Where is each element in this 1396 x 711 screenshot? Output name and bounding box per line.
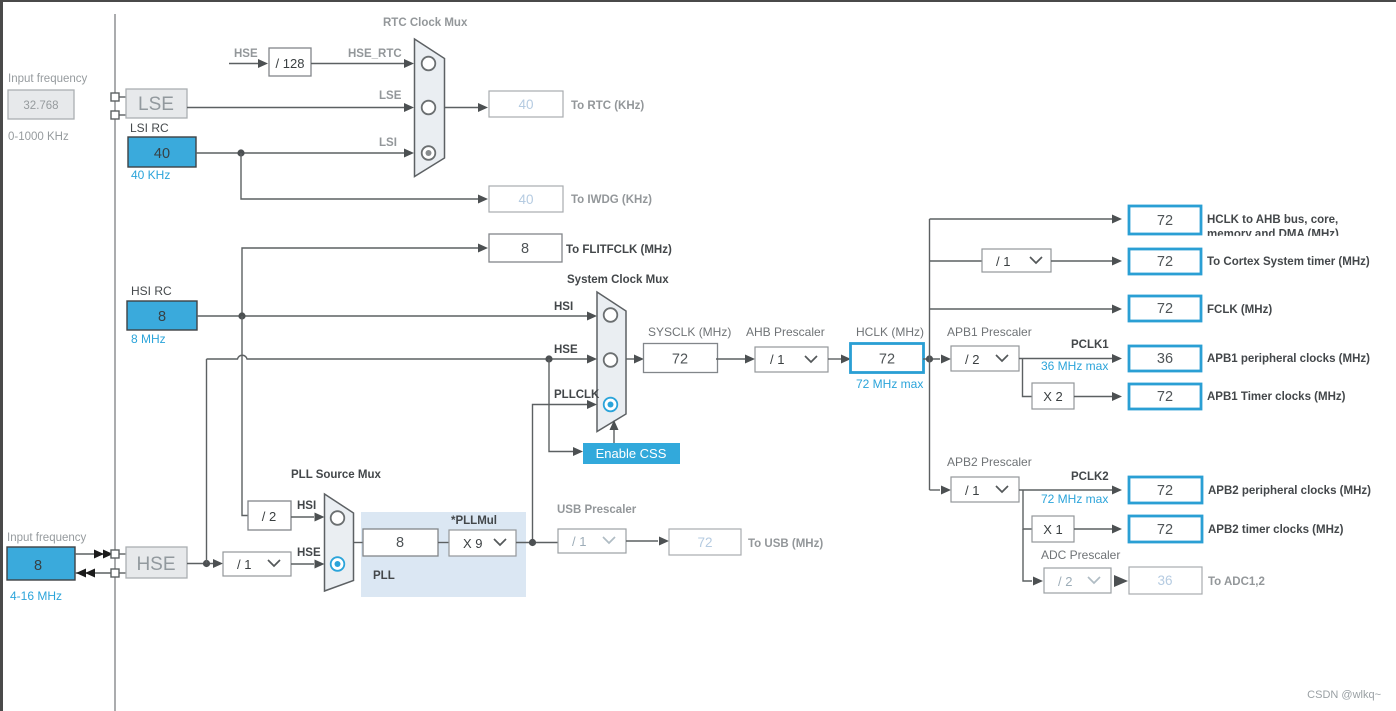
svg-text:HCLK to AHB bus, core,: HCLK to AHB bus, core, — [1207, 214, 1338, 226]
divider /2 PLL — [248, 501, 291, 530]
prescaler APB2 /1 — [951, 477, 1019, 502]
wire PLL mux output — [354, 542, 364, 544]
prescaler AHB /1 — [755, 347, 828, 372]
svg-text:PLL: PLL — [373, 570, 395, 582]
box To IWDG value 40 — [489, 186, 563, 212]
radio RTC HSE_RTC — [422, 57, 436, 71]
wire /128 to RTC mux — [311, 59, 414, 68]
svg-text:AHB Prescaler: AHB Prescaler — [746, 325, 825, 339]
wire HSE to system mux with hop — [207, 355, 598, 364]
svg-text:8: 8 — [34, 558, 42, 574]
svg-text:72: 72 — [1157, 254, 1173, 270]
wire HSI to system mux — [197, 312, 597, 321]
svg-text:40: 40 — [154, 146, 170, 162]
svg-text:8: 8 — [158, 309, 166, 325]
oscillator LSE — [126, 89, 187, 118]
mux RTC Clock Mux — [415, 39, 445, 177]
multiplier X2 — [1032, 383, 1074, 409]
wire X9 to USB prescaler — [516, 542, 558, 544]
wire X2 to APB1 timer output — [1074, 392, 1122, 401]
svg-text:HSE: HSE — [136, 554, 175, 575]
wire LSE to RTC mux — [187, 103, 414, 112]
box To FLITFCLK value 8 — [489, 234, 562, 262]
svg-text:X 9: X 9 — [463, 536, 483, 551]
wire HSI junction to /2 divider — [242, 316, 248, 516]
box PCLK2 value 72 — [1129, 477, 1202, 503]
svg-text:/ 1: / 1 — [572, 534, 586, 549]
svg-text:36: 36 — [1157, 351, 1173, 367]
multiplier X9 — [449, 530, 516, 556]
button Enable CSS — [583, 443, 680, 464]
wire PLL 8 to X9 — [438, 542, 449, 544]
prescaler HSE /1 — [223, 552, 291, 576]
wire AHB prescaler to HCLK — [828, 355, 851, 364]
svg-text:40: 40 — [518, 97, 533, 112]
svg-text:/ 2: / 2 — [262, 509, 276, 524]
box Cortex timer value 72 — [1129, 249, 1201, 274]
wire HSE junction to Enable CSS — [549, 359, 583, 456]
wire HCLK trunk vertical — [929, 219, 931, 490]
radio RTC LSE — [422, 101, 436, 115]
junction HCLK trunk node — [926, 355, 933, 362]
svg-text:LSE: LSE — [138, 94, 174, 115]
svg-text:To RTC (KHz): To RTC (KHz) — [571, 100, 644, 112]
svg-text:Input frequency: Input frequency — [7, 532, 87, 544]
frame top bar — [0, 0, 1396, 2]
svg-text:72: 72 — [879, 352, 895, 368]
box FCLK value 72 — [1129, 296, 1201, 321]
wire PLLCLK riser to system mux — [533, 400, 598, 543]
junction LSI node — [237, 149, 244, 156]
prescaler Cortex /1 — [982, 249, 1051, 272]
connector square LSE pin1 — [111, 93, 119, 101]
svg-text:HSI: HSI — [297, 500, 316, 512]
radio SYS HSE — [604, 353, 618, 367]
svg-text:/ 1: / 1 — [237, 557, 251, 572]
svg-text:PLL Source Mux: PLL Source Mux — [291, 469, 381, 481]
svg-text:HSE_RTC: HSE_RTC — [348, 48, 402, 60]
wire /1 to PLL mux — [291, 560, 325, 569]
multiplier X1 — [1032, 516, 1074, 542]
wire HSE to input double arrow left — [75, 569, 111, 578]
wire RTC mux output — [445, 103, 489, 112]
svg-text:X 2: X 2 — [1043, 389, 1063, 404]
divider /128 — [269, 48, 311, 76]
svg-text:72: 72 — [1157, 213, 1173, 229]
wire X1 to APB2 timer output — [1074, 525, 1122, 534]
svg-text:Enable CSS: Enable CSS — [596, 446, 667, 461]
wire trunk to HCLK AHB output — [930, 215, 1123, 224]
svg-text:System Clock Mux: System Clock Mux — [567, 274, 669, 286]
oscillator HSE — [126, 547, 187, 578]
wire input to HSE double arrow right — [75, 550, 113, 559]
svg-text:To FLITFCLK (MHz): To FLITFCLK (MHz) — [566, 244, 672, 256]
svg-text:USB Prescaler: USB Prescaler — [557, 504, 637, 516]
wire SYSCLK to AHB prescaler — [716, 355, 755, 364]
svg-text:72: 72 — [697, 535, 712, 550]
svg-text:APB1 Prescaler: APB1 Prescaler — [947, 325, 1032, 339]
svg-text:/ 1: / 1 — [965, 483, 979, 498]
svg-text:72: 72 — [1157, 389, 1173, 405]
wire cortex prescaler to output — [1051, 257, 1122, 266]
wire square stubs LSE — [119, 97, 126, 115]
svg-text:40 KHz: 40 KHz — [131, 168, 170, 182]
svg-text:36: 36 — [1157, 573, 1172, 588]
svg-text:32.768: 32.768 — [23, 100, 58, 112]
wire trunk to cortex prescaler — [930, 260, 983, 262]
wire HSI to FLITFCLK — [242, 244, 488, 317]
box APB1 timer value 72 — [1129, 384, 1201, 409]
svg-text:PCLK1: PCLK1 — [1071, 339, 1109, 351]
box PLL input value 8 — [363, 529, 438, 556]
wire USB prescaler to output — [626, 537, 669, 546]
oscillator HSI RC 8 — [127, 301, 197, 330]
svg-text:FCLK (MHz): FCLK (MHz) — [1207, 304, 1272, 316]
svg-text:ADC Prescaler: ADC Prescaler — [1041, 548, 1120, 562]
svg-text:HSI: HSI — [554, 301, 573, 313]
radio SYS PLLCLK selected — [604, 398, 618, 412]
junction HSE node — [203, 560, 210, 567]
svg-text:APB1 peripheral clocks (MHz): APB1 peripheral clocks (MHz) — [1207, 353, 1370, 365]
svg-text:SYSCLK (MHz): SYSCLK (MHz) — [648, 325, 731, 339]
wire APB1 to X2 — [1023, 359, 1033, 397]
svg-text:0-1000 KHz: 0-1000 KHz — [8, 131, 69, 143]
svg-text:CSDN @wlkq~: CSDN @wlkq~ — [1307, 689, 1381, 701]
wire /2 to PLL mux — [291, 513, 325, 522]
mux System Clock Mux — [597, 292, 626, 432]
radio PLL HSE selected — [331, 557, 345, 571]
svg-text:40: 40 — [518, 192, 533, 207]
svg-text:/ 2: / 2 — [1058, 574, 1072, 589]
connector square HSE pin2 — [111, 569, 119, 577]
box PCLK1 value 36 — [1129, 346, 1201, 371]
svg-text:8 MHz: 8 MHz — [131, 332, 166, 346]
svg-text:8: 8 — [521, 241, 529, 257]
wire LSI to RTC mux — [196, 149, 414, 158]
svg-text:Input frequency: Input frequency — [8, 73, 88, 85]
wire APB2 to ADC prescaler — [1023, 529, 1043, 586]
wire trunk to APB2 prescaler — [930, 486, 952, 495]
svg-text:*PLLMul: *PLLMul — [451, 515, 497, 527]
connector square HSE pin1 — [111, 550, 119, 558]
wire HCLK to trunk — [923, 355, 951, 364]
box HSE input frequency 8 — [7, 547, 75, 580]
box To USB value 72 — [669, 529, 741, 555]
svg-text:72: 72 — [672, 352, 688, 368]
wire HSE riser to system mux — [206, 359, 208, 564]
svg-text:HSE: HSE — [554, 344, 578, 356]
panel PLL — [361, 512, 526, 597]
svg-text:72: 72 — [1157, 301, 1173, 317]
wire trunk to FCLK output — [930, 305, 1123, 314]
wire APB2 to PCLK2 output — [1019, 486, 1122, 495]
svg-text:HSE: HSE — [234, 48, 258, 60]
svg-text:/ 1: / 1 — [996, 254, 1010, 269]
connector square LSE pin2 — [111, 111, 119, 119]
svg-text:HCLK (MHz): HCLK (MHz) — [856, 325, 924, 339]
box HCLK value 72 — [851, 344, 924, 373]
junction HSI node — [238, 312, 245, 319]
prescaler ADC /2 disabled — [1044, 568, 1111, 593]
left boundary rail — [114, 14, 116, 711]
box LSE input frequency 32.768 — [8, 90, 74, 119]
svg-text:36 MHz max: 36 MHz max — [1041, 359, 1108, 373]
box To RTC value 40 — [489, 91, 563, 117]
box APB2 timer value 72 — [1129, 516, 1202, 542]
box ADC value 36 — [1129, 567, 1202, 594]
svg-text:8: 8 — [396, 535, 404, 551]
wire square stubs HSE — [119, 554, 126, 573]
svg-text:APB2 peripheral clocks (MHz): APB2 peripheral clocks (MHz) — [1208, 485, 1371, 497]
box SYSCLK value 72 — [644, 344, 718, 373]
svg-text:HSE: HSE — [297, 547, 321, 559]
svg-text:/ 1: / 1 — [770, 352, 784, 367]
prescaler APB1 /2 — [951, 346, 1019, 371]
prescaler USB /1 disabled — [558, 529, 626, 553]
box HCLK AHB value 72 — [1129, 206, 1201, 234]
svg-text:/ 2: / 2 — [965, 352, 979, 367]
svg-text:LSI: LSI — [379, 137, 397, 149]
svg-text:72 MHz max: 72 MHz max — [856, 377, 923, 391]
frame left bar — [0, 0, 3, 711]
wire HSE box to prescaler — [187, 559, 223, 568]
svg-text:LSI RC: LSI RC — [130, 121, 169, 135]
svg-text:APB2 timer clocks (MHz): APB2 timer clocks (MHz) — [1208, 524, 1344, 536]
svg-text:To ADC1,2: To ADC1,2 — [1208, 576, 1265, 588]
svg-text:APB1 Timer clocks (MHz): APB1 Timer clocks (MHz) — [1207, 391, 1346, 403]
svg-text:PLLCLK: PLLCLK — [554, 389, 600, 401]
svg-text:72: 72 — [1157, 522, 1173, 538]
radio SYS HSI — [604, 308, 618, 322]
svg-text:72 MHz max: 72 MHz max — [1041, 492, 1108, 506]
svg-text:To IWDG (KHz): To IWDG (KHz) — [571, 194, 652, 206]
svg-text:LSE: LSE — [379, 90, 402, 102]
radio PLL HSI — [331, 511, 345, 525]
wire Enable CSS to mux — [610, 420, 619, 443]
wire LSI to IWDG — [241, 153, 488, 204]
wire APB2 to X1 — [1023, 490, 1032, 529]
svg-text:72: 72 — [1157, 483, 1173, 499]
label HCLK to AHB bus core memory and DMA — [1203, 214, 1396, 245]
svg-text:HSI RC: HSI RC — [131, 284, 172, 298]
svg-text:To USB (MHz): To USB (MHz) — [748, 538, 823, 550]
junction HSE css node — [545, 355, 552, 362]
svg-text:RTC Clock Mux: RTC Clock Mux — [383, 17, 468, 29]
svg-text:PCLK2: PCLK2 — [1071, 471, 1109, 483]
svg-text:/ 128: / 128 — [276, 56, 305, 71]
wire ADC prescaler to output — [1114, 575, 1128, 587]
svg-text:X 1: X 1 — [1043, 522, 1063, 537]
wire HSE stub to /128 — [229, 59, 268, 68]
wire APB1 to PCLK1 output — [1019, 354, 1122, 363]
radio RTC LSI selected — [422, 146, 436, 160]
oscillator LSI RC 40 — [128, 137, 196, 167]
svg-text:4-16 MHz: 4-16 MHz — [10, 589, 62, 603]
junction PLLCLK node — [529, 539, 536, 546]
svg-text:APB2 Prescaler: APB2 Prescaler — [947, 455, 1032, 469]
mux PLL Source Mux — [325, 494, 354, 591]
svg-text:To Cortex System timer (MHz): To Cortex System timer (MHz) — [1207, 256, 1370, 268]
wire system mux output — [626, 355, 644, 364]
